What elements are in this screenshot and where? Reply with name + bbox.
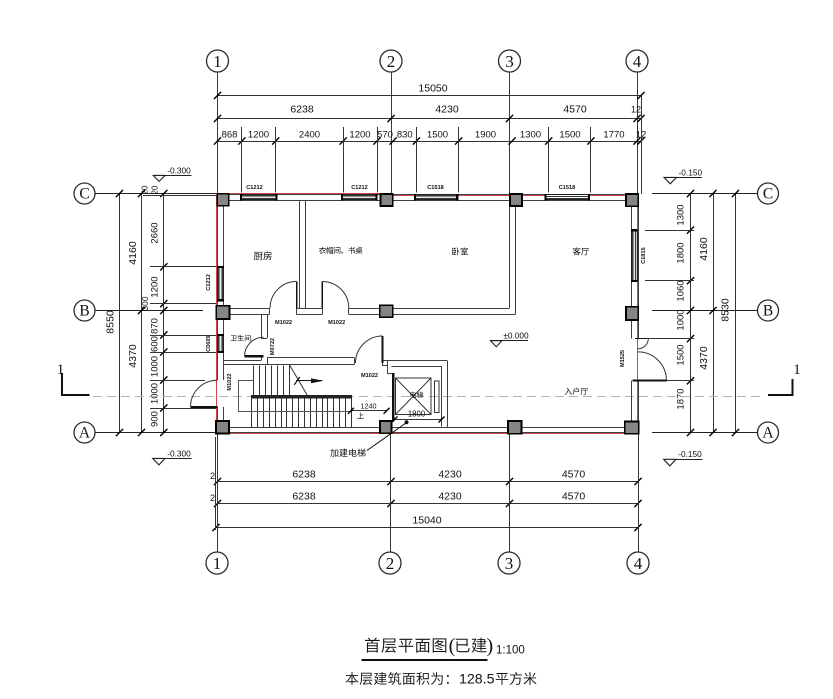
column grid1/A bbox=[216, 421, 229, 434]
stair direction arrow bbox=[294, 377, 323, 385]
svg-text:(: ( bbox=[449, 635, 456, 657]
column grid4/B bbox=[626, 307, 638, 320]
label 厨房 kitchen bbox=[254, 251, 272, 260]
svg-text:1870: 1870 bbox=[676, 388, 687, 409]
svg-text:1300: 1300 bbox=[676, 204, 687, 225]
svg-text:12: 12 bbox=[631, 105, 641, 115]
tag C1518 top-2 bbox=[559, 185, 575, 191]
stair break line bbox=[289, 365, 308, 397]
bathroom/stair-hall south wall bbox=[224, 356, 355, 364]
grid axis A left circle bbox=[74, 422, 217, 443]
svg-text:4230: 4230 bbox=[438, 491, 462, 503]
svg-text:M1022: M1022 bbox=[361, 373, 378, 379]
grid axis B right circle bbox=[652, 300, 779, 321]
svg-text:4160: 4160 bbox=[127, 241, 139, 265]
tag C1518 top-1 bbox=[427, 185, 443, 191]
bottom wall outer line bbox=[218, 432, 639, 434]
svg-text:2660: 2660 bbox=[150, 222, 161, 243]
bottom wall inner line bbox=[224, 427, 632, 429]
svg-text:C1212: C1212 bbox=[246, 185, 262, 191]
grid axis C left circle bbox=[74, 183, 217, 204]
svg-text:M1525: M1525 bbox=[620, 350, 626, 367]
elevator shaft outer wall bbox=[387, 361, 448, 428]
svg-text:20: 20 bbox=[151, 185, 160, 194]
left dim line 4160/4370 bbox=[127, 190, 145, 436]
svg-text:3: 3 bbox=[505, 52, 514, 71]
svg-text:4: 4 bbox=[634, 554, 643, 573]
grid axis 3 top circle bbox=[499, 50, 521, 72]
window C1212 left wall bbox=[217, 267, 224, 300]
svg-text:1900: 1900 bbox=[475, 129, 496, 140]
svg-text:4570: 4570 bbox=[563, 104, 587, 116]
column grid4/C bbox=[626, 194, 638, 206]
section line 1-1 dashed bbox=[93, 396, 765, 398]
svg-text:1: 1 bbox=[213, 52, 222, 71]
column grid2/A bbox=[380, 421, 392, 433]
stair rail outline bbox=[239, 380, 352, 412]
svg-text:M1022: M1022 bbox=[275, 320, 292, 326]
level marker -0.300 bottom-left bbox=[153, 448, 192, 465]
door M1022 left exterior bbox=[191, 380, 218, 407]
svg-text:570: 570 bbox=[377, 129, 393, 140]
level marker -0.300 top-left bbox=[153, 165, 191, 181]
top dim line 15050 bbox=[214, 83, 645, 100]
svg-text:-0.150: -0.150 bbox=[678, 449, 702, 459]
svg-text:1500: 1500 bbox=[559, 129, 580, 140]
svg-text:868: 868 bbox=[222, 129, 238, 140]
grid axis 4 bottom circle bbox=[627, 552, 649, 574]
elevator door panel bbox=[435, 381, 439, 413]
svg-text:): ) bbox=[486, 635, 493, 657]
tag M1022 kitchen door bbox=[275, 320, 292, 326]
svg-text:6238: 6238 bbox=[290, 104, 314, 116]
svg-text:1: 1 bbox=[213, 554, 222, 573]
column grid2/B bbox=[380, 305, 393, 317]
tag C0609 left bbox=[206, 335, 212, 351]
svg-text:1800: 1800 bbox=[676, 242, 687, 263]
svg-text:4370: 4370 bbox=[127, 344, 139, 368]
svg-text:C1815: C1815 bbox=[641, 247, 647, 263]
svg-text:3: 3 bbox=[505, 554, 514, 573]
label 加建电梯 bbox=[330, 449, 365, 457]
svg-text:2: 2 bbox=[210, 493, 215, 503]
grid axis 1 top circle bbox=[207, 50, 229, 72]
grid axis A right circle bbox=[652, 422, 779, 443]
svg-text:C: C bbox=[79, 186, 89, 203]
tag M1022 cloakroom door bbox=[328, 320, 345, 326]
top wall outer line bbox=[218, 194, 639, 196]
svg-text:4570: 4570 bbox=[562, 469, 586, 481]
svg-text:1200: 1200 bbox=[248, 129, 269, 140]
top dim line 6238/4230/4570/12 bbox=[214, 104, 645, 123]
right wall inner line bbox=[631, 200, 633, 428]
svg-text:M1022: M1022 bbox=[227, 373, 233, 390]
bathroom east wall bbox=[261, 315, 268, 339]
svg-text:1500: 1500 bbox=[676, 344, 687, 365]
svg-text:B: B bbox=[79, 303, 89, 320]
svg-text:20: 20 bbox=[141, 185, 150, 194]
grid axis 2 bottom circle bbox=[379, 552, 401, 574]
tag C1212 top-2 bbox=[351, 185, 367, 191]
grid axis 2 top circle bbox=[380, 50, 402, 72]
elevator shaft west wall (thick) bbox=[392, 373, 394, 421]
section mark 1 left bbox=[57, 362, 90, 395]
right dim line 8530 bbox=[720, 190, 740, 436]
window C1815 right wall bbox=[631, 230, 637, 281]
label 电梯 bbox=[410, 392, 423, 398]
column grid4/A bbox=[625, 422, 639, 434]
svg-text:1: 1 bbox=[57, 362, 65, 378]
svg-text:600: 600 bbox=[150, 336, 161, 352]
red line right wall bbox=[637, 193, 639, 433]
svg-text:8530: 8530 bbox=[720, 298, 732, 322]
red line bottom wall bbox=[217, 432, 639, 434]
tag M1525 entry door bbox=[620, 350, 626, 367]
window C1212 top-2 bbox=[342, 194, 377, 201]
elevator shaft inner wall bbox=[392, 366, 442, 427]
stair door east jamb and step bbox=[383, 360, 393, 374]
window C1518 top-1 bbox=[415, 194, 457, 201]
label 卧室 bedroom bbox=[452, 247, 468, 255]
column grid3/A bbox=[508, 421, 522, 434]
svg-text:300: 300 bbox=[140, 296, 150, 310]
svg-text:900: 900 bbox=[150, 411, 161, 427]
svg-text:1300: 1300 bbox=[520, 129, 541, 140]
window C0609 left wall bbox=[217, 335, 224, 352]
bottom dim extension lines bbox=[216, 434, 639, 553]
svg-text:15050: 15050 bbox=[418, 83, 447, 95]
svg-text:M0722: M0722 bbox=[270, 338, 276, 355]
tag C1212 left bbox=[206, 274, 212, 290]
area text 本层建筑面积为128.5平方米 bbox=[346, 672, 537, 688]
svg-text:1000: 1000 bbox=[150, 383, 161, 404]
right wall outer line bbox=[638, 194, 640, 433]
svg-text:1240: 1240 bbox=[361, 402, 377, 411]
right dim line 4160/4370 bbox=[698, 190, 717, 436]
grid axis stems top bbox=[218, 72, 638, 194]
stair dim 1240 bbox=[348, 402, 390, 414]
level marker +0.000 entry bbox=[490, 330, 529, 346]
wall row B (kitchen/cloak/bedroom south) bbox=[224, 308, 516, 315]
svg-text:2: 2 bbox=[210, 471, 215, 481]
title scale 1:100 bbox=[496, 645, 525, 657]
svg-text:1800: 1800 bbox=[408, 409, 426, 418]
door M1022 cloakroom bbox=[322, 282, 349, 309]
red line top wall bbox=[217, 194, 639, 196]
title underline bbox=[362, 659, 488, 661]
left dim line details bbox=[140, 185, 167, 436]
label 上 (stairs up) bbox=[357, 412, 364, 418]
left wall outer line bbox=[217, 194, 219, 433]
column grid3/C bbox=[510, 194, 522, 206]
section mark 1 right bbox=[768, 362, 801, 395]
svg-text:1200: 1200 bbox=[349, 129, 370, 140]
svg-text:1500: 1500 bbox=[427, 129, 448, 140]
svg-text:M1022: M1022 bbox=[328, 320, 345, 326]
svg-text:-0.300: -0.300 bbox=[167, 165, 191, 175]
left dim extension lines bbox=[143, 196, 217, 409]
svg-text:-0.150: -0.150 bbox=[679, 167, 703, 177]
elevator cab bbox=[396, 378, 432, 415]
svg-text:1: 1 bbox=[793, 362, 801, 378]
bottom dim line 6238/4230/4570 (second) bbox=[210, 491, 642, 508]
right dim extension lines bbox=[645, 231, 694, 381]
bottom dim line 6238/4230/4570 (first) bbox=[210, 469, 642, 486]
svg-text:±0.000: ±0.000 bbox=[503, 330, 529, 340]
grid axis 1 bottom circle bbox=[206, 552, 228, 574]
stair mid landing band bbox=[251, 395, 352, 398]
svg-text:8550: 8550 bbox=[105, 310, 117, 334]
svg-text:128.5: 128.5 bbox=[459, 672, 495, 688]
door M1022 stair hall bbox=[356, 336, 383, 363]
leader 加建电梯 bbox=[367, 420, 409, 450]
svg-text:4160: 4160 bbox=[698, 237, 710, 261]
level marker -0.150 top-right bbox=[664, 167, 702, 184]
svg-text:-0.300: -0.300 bbox=[167, 448, 191, 458]
label 卫生间 bathroom bbox=[231, 335, 251, 341]
svg-text:6238: 6238 bbox=[292, 491, 316, 503]
column grid1/B bbox=[216, 306, 229, 319]
svg-text:C1518: C1518 bbox=[427, 185, 443, 191]
svg-text:6238: 6238 bbox=[292, 469, 316, 481]
svg-text:2: 2 bbox=[386, 554, 395, 573]
stair lower flight treads bbox=[252, 398, 352, 427]
svg-text:2: 2 bbox=[387, 52, 396, 71]
svg-text:1770: 1770 bbox=[603, 129, 624, 140]
title 首层平面图(已建) bbox=[365, 635, 493, 657]
tag M1022 stair door bbox=[361, 373, 378, 379]
tag C1815 right bbox=[641, 247, 647, 263]
svg-text:1:100: 1:100 bbox=[496, 645, 525, 657]
svg-text:C0609: C0609 bbox=[206, 335, 212, 351]
svg-text:4: 4 bbox=[633, 52, 642, 71]
svg-text:C: C bbox=[763, 186, 773, 203]
door M1525 entry (double leaf) bbox=[633, 339, 667, 381]
svg-text:C1212: C1212 bbox=[351, 185, 367, 191]
svg-text:C1518: C1518 bbox=[559, 185, 575, 191]
svg-text:1000: 1000 bbox=[150, 356, 161, 377]
tag M0722 bathroom door bbox=[270, 338, 276, 355]
top wall inner line bbox=[224, 200, 632, 202]
grid axis 3 bottom circle bbox=[498, 552, 520, 574]
grid axis 4 top circle bbox=[626, 50, 648, 72]
grid axis C right circle bbox=[652, 183, 779, 204]
elevator dim 1800 bbox=[392, 409, 445, 422]
door M0722 bathroom bbox=[245, 337, 264, 356]
svg-text:15040: 15040 bbox=[412, 515, 441, 527]
window C1212 top-1 bbox=[241, 194, 277, 201]
svg-text:830: 830 bbox=[397, 129, 413, 140]
svg-text:1000: 1000 bbox=[676, 309, 687, 330]
svg-text:4370: 4370 bbox=[698, 346, 710, 370]
door M1022 kitchen bbox=[270, 281, 297, 308]
left wall inner line bbox=[223, 200, 225, 428]
svg-text:4230: 4230 bbox=[435, 104, 459, 116]
svg-text:4570: 4570 bbox=[562, 491, 586, 503]
svg-text:B: B bbox=[763, 303, 773, 320]
svg-text:4230: 4230 bbox=[438, 469, 462, 481]
svg-text:2400: 2400 bbox=[299, 129, 320, 140]
window C1518 top-2 bbox=[546, 194, 590, 201]
bedroom east wall bbox=[510, 207, 516, 315]
svg-text:1060: 1060 bbox=[676, 280, 687, 301]
partition kitchen/cloakroom bbox=[299, 200, 305, 309]
svg-text:870: 870 bbox=[150, 318, 161, 334]
svg-text:C1212: C1212 bbox=[206, 274, 212, 290]
top dim line small segments bbox=[214, 129, 646, 144]
stair upper flight treads bbox=[254, 365, 290, 395]
left dim line 8550 bbox=[105, 190, 124, 436]
level marker -0.150 bottom-right bbox=[664, 449, 703, 466]
right dim line details bbox=[676, 190, 695, 436]
red line left wall bbox=[216, 193, 218, 433]
svg-text:A: A bbox=[79, 425, 91, 442]
grid axis B left circle bbox=[74, 300, 203, 321]
tag M1022 left door bbox=[227, 373, 233, 390]
column grid2/C bbox=[381, 194, 393, 206]
svg-text:A: A bbox=[762, 425, 774, 442]
column grid1/C bbox=[217, 194, 229, 206]
tag C1212 top-1 bbox=[246, 185, 262, 191]
label 入户厅 entry hall bbox=[565, 387, 588, 394]
top dim extension lines bbox=[242, 96, 642, 195]
label 客厅 living room bbox=[573, 247, 589, 255]
svg-text:1200: 1200 bbox=[150, 276, 161, 297]
bottom dim line 15040 bbox=[212, 515, 641, 532]
label 衣帽间书桌 cloakroom bbox=[319, 247, 363, 254]
